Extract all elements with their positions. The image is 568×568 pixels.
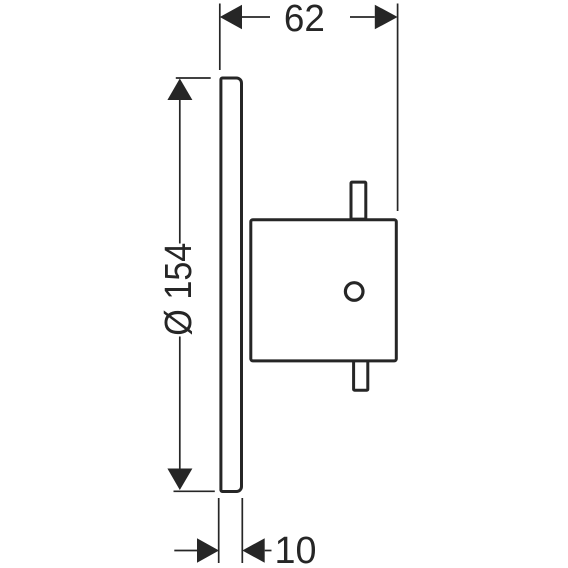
svg-text:10: 10 xyxy=(275,530,317,568)
screw hole circle on valve body xyxy=(345,283,363,301)
dimension D154: upper dimension line segment xyxy=(179,99,181,244)
dimension 10: left arrow xyxy=(197,538,219,563)
dimension 10: right extension line xyxy=(241,498,243,563)
dimension 62: right arrow xyxy=(375,5,398,30)
dimension 10: right arrow xyxy=(242,538,264,563)
dimension 62: right extension line xyxy=(397,4,399,212)
dimension 10: left extension line xyxy=(218,498,220,563)
dimension D154: lower dimension line segment xyxy=(179,337,181,470)
dimension 62: left extension line xyxy=(219,4,221,71)
dimension D154: bottom extension line xyxy=(174,490,215,492)
svg-text:62: 62 xyxy=(284,0,325,40)
dimension 10: right tail line xyxy=(265,550,272,552)
top tab (handle stem above valve body) xyxy=(351,182,366,219)
valve body (square box) xyxy=(251,220,396,361)
dimension 62: left arrow xyxy=(220,5,242,30)
dimension D154: down arrow xyxy=(167,469,192,491)
dimension D154: up arrow xyxy=(167,79,192,101)
dimension 62: right dimension line segment xyxy=(350,16,375,18)
wall plate (tall rectangle, rounded on right side) xyxy=(221,78,242,492)
svg-text:Ø 154: Ø 154 xyxy=(158,243,200,336)
dimension 62: left dimension line segment xyxy=(242,16,270,18)
bottom tab (stem below valve body) xyxy=(354,356,368,390)
dimension 10: left tail line xyxy=(174,550,197,552)
dimension D154: top extension line xyxy=(176,77,211,79)
